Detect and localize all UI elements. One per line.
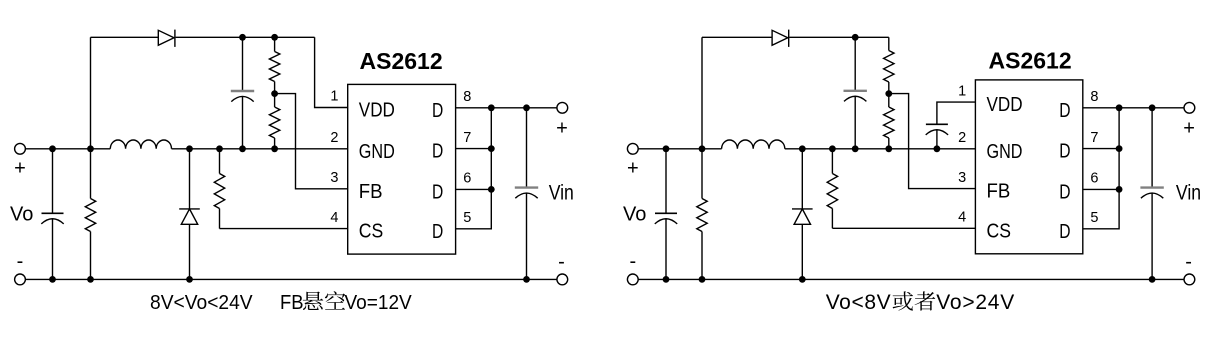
boost capacitor (right)	[854, 37, 856, 91]
svg-text:1: 1	[958, 83, 966, 99]
svg-text:Vo: Vo	[10, 203, 33, 225]
junction: boost cap / mid rail (right)	[852, 145, 859, 152]
boost diode (left)	[158, 30, 174, 45]
input - terminal (right)	[1184, 274, 1195, 285]
wire: pin 6 to bus (right)	[1083, 188, 1119, 190]
svg-text:Vin: Vin	[549, 181, 574, 205]
svg-text:D: D	[1059, 99, 1070, 121]
svg-text:+: +	[14, 158, 26, 180]
svg-text:FB: FB	[359, 181, 383, 203]
svg-text:-: -	[17, 251, 24, 273]
svg-text:1: 1	[330, 89, 338, 105]
svg-text:5: 5	[1090, 210, 1098, 226]
wire: + terminal to inductor (right)	[638, 148, 721, 150]
op-amp/controller IC U2 AS2612 body	[975, 80, 1082, 254]
junction: Vin cap / pin 8 wire (right)	[1149, 104, 1156, 111]
input capacitor Vin (right)	[1151, 108, 1153, 188]
wire: riser to boost diode wire (left)	[90, 37, 92, 149]
wire: inductor to GND pin 2 rail (left)	[172, 148, 348, 150]
output - terminal (right)	[627, 274, 638, 285]
junction: bus / pin 6 (left)	[488, 186, 495, 193]
svg-text:6: 6	[463, 171, 471, 187]
svg-text:D: D	[1059, 220, 1070, 242]
VDD decoupling capacitor (right)	[926, 123, 948, 125]
junction: sense resistor / mid rail (right)	[829, 145, 836, 152]
svg-text:6: 6	[1090, 171, 1098, 187]
feedback divider resistor lower (right)	[888, 94, 890, 107]
svg-text:+: +	[627, 158, 639, 180]
svg-text:7: 7	[463, 130, 471, 146]
svg-text:D: D	[1059, 140, 1070, 162]
feedback divider resistor upper (right)	[888, 37, 890, 50]
freewheel diode (left)	[189, 149, 191, 209]
input + terminal (left)	[557, 102, 568, 113]
output capacitor (right)	[665, 149, 667, 214]
svg-text:FB: FB	[280, 292, 304, 314]
svg-text:8: 8	[1090, 89, 1098, 105]
caption right: CJK char huo (or)	[893, 291, 914, 310]
junction: boost cap / mid rail (left)	[239, 145, 246, 152]
junction: divider midpoint node (left)	[271, 90, 278, 97]
load resistor (right)	[701, 149, 703, 199]
op-amp/controller IC U1 AS2612 body	[348, 84, 456, 254]
svg-text:8V<Vo<24V: 8V<Vo<24V	[150, 292, 253, 314]
wire: top boost wire right (left)	[176, 36, 315, 38]
wire: top boost wire right (right)	[789, 36, 888, 38]
wire: sense resistor to CS pin 4 (left)	[220, 228, 348, 230]
wire: pin 5 to bus (right)	[1083, 108, 1119, 229]
junction: freewheel diode / bottom rail (left)	[186, 276, 193, 283]
svg-text:GND: GND	[987, 140, 1023, 162]
boost diode (right)	[772, 30, 788, 45]
wire: VDD pin 1 to decoupling cap (right)	[937, 102, 976, 124]
svg-text:D: D	[1059, 181, 1070, 203]
svg-text:AS2612: AS2612	[989, 48, 1072, 74]
junction: freewheel diode / mid rail (left)	[186, 145, 193, 152]
wire: top boost wire left (right)	[702, 36, 772, 38]
svg-text:VDD: VDD	[987, 93, 1023, 116]
junction: output cap / mid rail (left)	[49, 145, 56, 152]
svg-text:2: 2	[330, 130, 338, 146]
svg-text:VDD: VDD	[359, 98, 395, 121]
svg-text:D: D	[432, 140, 443, 162]
svg-text:AS2612: AS2612	[360, 48, 443, 74]
load resistor (left)	[90, 149, 92, 199]
input + terminal (right)	[1184, 102, 1195, 113]
svg-text:CS: CS	[359, 220, 383, 242]
svg-text:7: 7	[1090, 130, 1098, 146]
wire: pin 7 to bus (left)	[456, 148, 492, 150]
svg-text:-: -	[629, 251, 636, 273]
inductor L (left)	[110, 140, 171, 149]
caption left: CJK char kong	[325, 291, 345, 309]
junction: bus top / pin 8 wire (left)	[488, 104, 495, 111]
svg-text:Vin: Vin	[1176, 181, 1201, 205]
junction: Vin cap / bottom rail (right)	[1149, 276, 1156, 283]
junction: freewheel diode / bottom rail (right)	[799, 276, 806, 283]
junction: Vin cap / pin 8 wire (left)	[523, 104, 530, 111]
svg-text:D: D	[432, 220, 443, 242]
current-sense resistor (right)	[831, 149, 833, 174]
wire: pin 8 to Vin + terminal (left)	[456, 107, 557, 109]
junction: bus / pin 7 (left)	[488, 145, 495, 152]
svg-text:+: +	[1183, 118, 1195, 140]
junction: divider / top wire (left)	[271, 34, 278, 41]
feedback divider resistor lower (left)	[274, 94, 276, 107]
wire: riser to boost diode wire (right)	[701, 37, 703, 149]
wire: top boost wire left (left)	[91, 36, 159, 38]
input capacitor Vin (left)	[526, 108, 528, 188]
svg-text:CS: CS	[987, 219, 1011, 241]
svg-text:Vo=12V: Vo=12V	[345, 292, 412, 315]
svg-text:+: +	[556, 118, 568, 140]
junction: freewheel diode / mid rail (right)	[799, 145, 806, 152]
junction: bus top / pin 8 wire (right)	[1116, 104, 1123, 111]
svg-text:4: 4	[330, 210, 338, 226]
junction: divider lower / mid rail (left)	[271, 145, 278, 152]
junction: VDD cap / mid rail (right)	[934, 145, 941, 152]
junction: output cap / mid rail (right)	[663, 145, 670, 152]
input - terminal (left)	[557, 274, 568, 285]
caption left: CJK char xuan (floating)	[303, 291, 323, 310]
boost capacitor (left)	[242, 37, 244, 91]
svg-text:FB: FB	[987, 181, 1011, 203]
wire: divider midpoint to FB pin 3 (right)	[889, 94, 976, 189]
junction: boost cap / top wire (left)	[239, 34, 246, 41]
svg-text:D: D	[432, 99, 443, 121]
output + terminal (right)	[627, 143, 638, 154]
wire: pin 5 to bus (left)	[456, 108, 492, 229]
current-sense resistor (left)	[219, 149, 221, 174]
junction: divider lower / mid rail (right)	[885, 145, 892, 152]
junction: output cap / bottom rail (left)	[49, 276, 56, 283]
wire: bottom rail (right)	[638, 278, 1184, 280]
freewheel diode (right)	[801, 149, 803, 209]
junction: sense resistor / mid rail (left)	[216, 145, 223, 152]
wire: sense resistor to CS pin 4 (right)	[832, 227, 975, 229]
output capacitor (left)	[52, 149, 54, 214]
wire: top wire to VDD pin 1 (left)	[315, 37, 348, 107]
junction: Vin cap / bottom rail (left)	[523, 276, 530, 283]
wire: pin 8 to Vin + terminal (right)	[1083, 107, 1184, 109]
svg-text:5: 5	[463, 210, 471, 226]
junction: load resistor / bottom rail (right)	[699, 276, 706, 283]
svg-text:GND: GND	[359, 140, 395, 162]
svg-text:Vo>24V: Vo>24V	[936, 291, 1015, 314]
junction: divider midpoint node (right)	[885, 90, 892, 97]
junction: bus / pin 7 (right)	[1116, 145, 1123, 152]
svg-text:8: 8	[463, 89, 471, 105]
junction: load resistor / mid rail (right)	[699, 145, 706, 152]
junction: bus / pin 6 (right)	[1116, 186, 1123, 193]
wire: inductor to GND pin 2 rail (right)	[785, 148, 976, 150]
junction: boost cap / top wire (right)	[852, 34, 859, 41]
inductor L (right)	[722, 140, 785, 149]
junction: output cap / bottom rail (right)	[663, 276, 670, 283]
wire: bottom rail (left)	[25, 278, 557, 280]
wire: pin 7 to bus (right)	[1083, 148, 1119, 150]
wire: + terminal to inductor (left)	[25, 148, 110, 150]
output + terminal (left)	[15, 143, 26, 154]
svg-text:3: 3	[330, 170, 338, 186]
svg-text:4: 4	[958, 210, 966, 226]
junction: load resistor / bottom rail (left)	[87, 276, 94, 283]
wire: pin 6 to bus (left)	[456, 188, 492, 190]
feedback divider resistor upper (left)	[274, 37, 276, 51]
output - terminal (left)	[15, 274, 26, 285]
junction: load resistor / mid rail (left)	[87, 145, 94, 152]
wire: divider midpoint to FB pin 3 (left)	[275, 94, 348, 189]
svg-text:-: -	[558, 251, 565, 273]
svg-text:D: D	[432, 181, 443, 203]
svg-text:3: 3	[958, 170, 966, 186]
svg-text:2: 2	[958, 130, 966, 146]
svg-text:-: -	[1185, 251, 1192, 273]
caption right: CJK char zhe	[915, 291, 936, 310]
svg-text:Vo<8V: Vo<8V	[826, 291, 892, 314]
svg-text:Vo: Vo	[623, 203, 646, 225]
